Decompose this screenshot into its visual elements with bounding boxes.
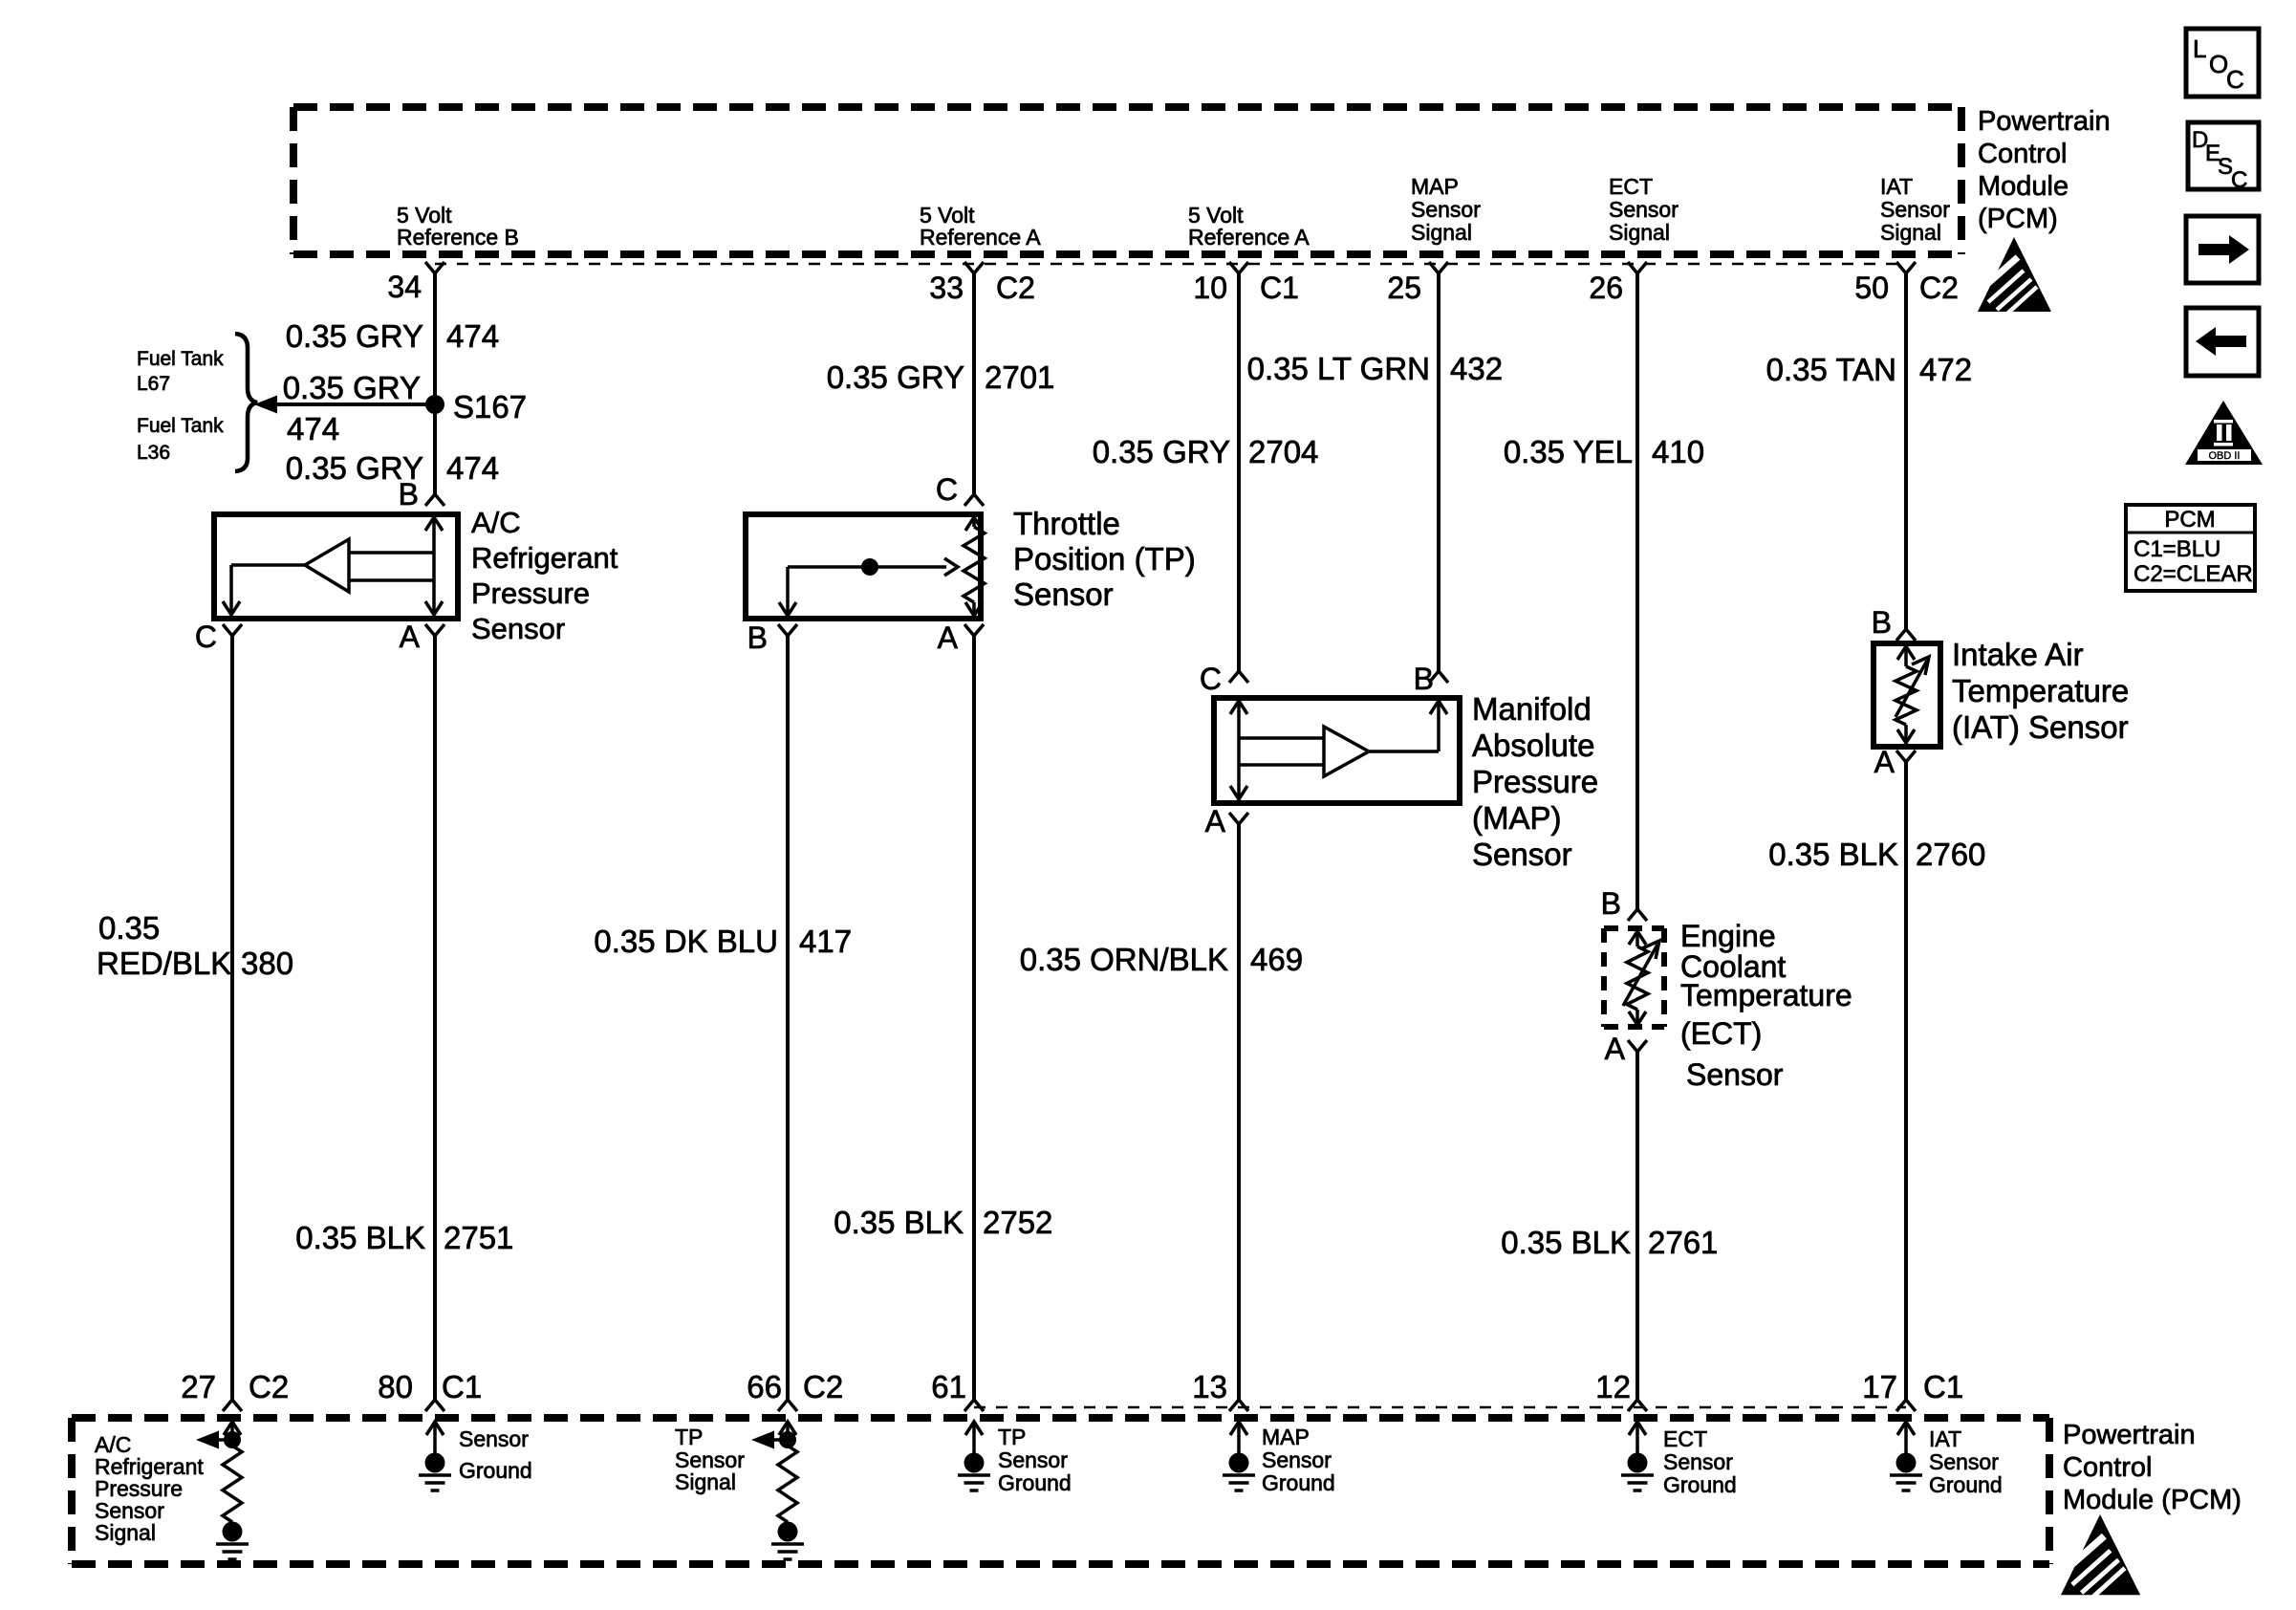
A/C refrigerant pressure sensor terminal C	[223, 624, 242, 636]
splice S167	[425, 395, 444, 414]
pin letter A (MAP)	[1205, 804, 1226, 838]
svg-text:Sensor: Sensor	[459, 1426, 529, 1451]
svg-text:34: 34	[387, 270, 422, 304]
wire label 0.35 GRY 474 (branch)	[283, 370, 421, 446]
svg-text:C: C	[195, 620, 217, 654]
svg-text:Engine: Engine	[1680, 919, 1776, 953]
svg-text:A: A	[1605, 1032, 1626, 1066]
svg-text:Signal: Signal	[95, 1520, 156, 1545]
wire 0.35 ORN/BLK 469 from MAP A to pin 13	[1237, 824, 1241, 1400]
label Fuel Tank L67	[137, 348, 224, 395]
svg-text:Pressure: Pressure	[1472, 764, 1598, 799]
svg-text:27: 27	[181, 1369, 216, 1404]
svg-text:C2: C2	[1919, 271, 1959, 305]
svg-text:C1: C1	[1923, 1369, 1963, 1404]
svg-text:B: B	[1414, 662, 1434, 696]
svg-text:Reference B: Reference B	[397, 225, 519, 250]
TP sensor potentiometer resistor	[964, 514, 985, 616]
svg-text:2704: 2704	[1248, 434, 1318, 469]
wire 0.35 LT GRN 432 from pin 25 to MAP B	[1437, 273, 1440, 671]
pin 12 label	[1595, 1369, 1631, 1404]
pin 17 label	[1862, 1369, 1897, 1404]
pin 66 terminal	[778, 1400, 797, 1411]
svg-text:Sensor: Sensor	[1411, 197, 1481, 222]
svg-text:12: 12	[1595, 1369, 1631, 1404]
pin letter C (A/C)	[195, 620, 217, 654]
legend icon LOC	[2186, 29, 2259, 97]
svg-text:Powertrain: Powertrain	[2063, 1420, 2196, 1450]
label A/C Refrigerant Pressure Sensor	[471, 506, 618, 645]
MAP sensor terminal C	[1229, 671, 1248, 683]
TP sensor wiper arm	[779, 558, 958, 616]
pin 10 terminal at PCM C1	[1229, 262, 1248, 273]
svg-text:432: 432	[1450, 351, 1503, 386]
wire 0.35 TAN 472 from pin 50 to IAT B	[1904, 273, 1908, 629]
svg-text:80: 80	[378, 1369, 413, 1404]
svg-text:C1: C1	[442, 1369, 482, 1404]
svg-text:C2: C2	[803, 1369, 843, 1404]
svg-text:Sensor: Sensor	[1013, 577, 1114, 612]
resistor R1 (PCM pull-up at pin 27)	[223, 1446, 242, 1522]
pin letter B (A/C)	[399, 477, 419, 511]
connector label C2 at pin 33	[996, 271, 1035, 305]
label IAT Sensor Ground	[1929, 1426, 2003, 1497]
PCM top connector C1/C2 boundary (thin dashed)	[435, 263, 1906, 266]
ECT sensor terminal B	[1628, 909, 1647, 921]
PCM input arrow at pin 13	[1230, 1422, 1247, 1454]
ground (PCM internal, pin 66)	[771, 1522, 804, 1560]
svg-text:A: A	[1874, 745, 1895, 779]
ground (PCM internal, pin 13)	[1223, 1453, 1255, 1491]
pin 61 terminal	[964, 1400, 984, 1411]
PCM bottom connector C1/C2 boundary (thin dashed)	[974, 1406, 1906, 1409]
svg-text:A: A	[1205, 804, 1226, 838]
svg-text:0.35 GRY: 0.35 GRY	[827, 359, 964, 395]
wire label 0.35 TAN 472	[1766, 352, 1972, 387]
wire 0.35 RED/BLK 380 from A/C C to pin 27	[230, 636, 234, 1400]
legend icon forward arrow	[2186, 216, 2259, 283]
svg-text:C: C	[2231, 167, 2247, 193]
svg-text:Signal: Signal	[1411, 220, 1472, 245]
svg-text:10: 10	[1193, 271, 1227, 305]
pin letter A (IAT)	[1874, 745, 1895, 779]
MAP sensor terminal A	[1229, 813, 1248, 824]
svg-text:469: 469	[1250, 942, 1303, 977]
svg-text:Sensor: Sensor	[998, 1447, 1068, 1472]
IAT sensor terminal A	[1896, 751, 1916, 762]
svg-text:Reference A: Reference A	[920, 225, 1041, 250]
svg-text:L: L	[2193, 34, 2206, 63]
resistor R2 (PCM pull-up at pin 66)	[778, 1446, 797, 1522]
svg-text:Fuel Tank: Fuel Tank	[137, 415, 224, 437]
svg-text:2752: 2752	[983, 1205, 1052, 1240]
pin 33 terminal at PCM C2	[964, 262, 984, 273]
svg-text:0.35 GRY: 0.35 GRY	[286, 318, 423, 354]
svg-text:B: B	[1872, 605, 1892, 640]
TP sensor terminal C	[964, 494, 984, 506]
wire label 0.35 BLK 2761	[1501, 1225, 1718, 1260]
svg-text:(IAT) Sensor: (IAT) Sensor	[1952, 709, 2129, 745]
pin letter A (A/C)	[400, 620, 421, 654]
wire label 0.35 GRY 2701	[827, 359, 1055, 395]
PCM input arrow at pin 66	[779, 1422, 796, 1440]
wire 0.35 DK BLU 417 from TP B to pin 66	[786, 636, 790, 1400]
connector label C1 at pin 80	[442, 1369, 482, 1404]
svg-text:B: B	[747, 620, 768, 655]
svg-text:Position (TP): Position (TP)	[1013, 541, 1196, 577]
svg-text:50: 50	[1854, 271, 1889, 305]
MAP sensor taps to amplifier	[1239, 738, 1324, 765]
svg-text:Intake Air: Intake Air	[1952, 637, 2084, 672]
svg-text:Ground: Ground	[998, 1470, 1072, 1495]
A/C sensor internal down arrow at A	[425, 601, 443, 615]
A/C refrigerant pressure sensor terminal B	[425, 494, 444, 506]
MAP sensor internal supply wire	[1230, 698, 1247, 801]
pin letter B (IAT)	[1872, 605, 1892, 640]
label Powertrain Control Module (PCM) bottom right	[2063, 1420, 2242, 1515]
svg-text:Sensor: Sensor	[1880, 197, 1950, 222]
svg-text:Ground: Ground	[1262, 1470, 1335, 1495]
svg-text:(ECT): (ECT)	[1680, 1016, 1762, 1051]
wire 0.35 BLK 2752 from TP A to pin 61	[972, 636, 976, 1400]
PCM input arrow at pin 80	[426, 1422, 444, 1454]
ground (PCM internal, pin 12)	[1621, 1453, 1654, 1491]
svg-text:Sensor: Sensor	[1262, 1447, 1332, 1472]
svg-text:TP: TP	[998, 1425, 1026, 1449]
svg-text:IAT: IAT	[1929, 1426, 1961, 1451]
svg-text:0.35 GRY: 0.35 GRY	[283, 370, 421, 405]
svg-text:MAP: MAP	[1262, 1425, 1310, 1449]
svg-text:Control: Control	[1978, 139, 2068, 169]
pin 34 terminal at PCM C1	[425, 262, 444, 273]
brace for fuel tank destinations	[235, 334, 257, 471]
wire 0.35 YEL 410 from pin 26 to ECT B	[1635, 273, 1639, 909]
op-amp U1 (A/C sensor amplifier)	[305, 539, 349, 592]
svg-text:A: A	[400, 620, 421, 654]
pin 26 terminal	[1628, 262, 1647, 273]
PCM input arrow at pin 17	[1897, 1422, 1915, 1454]
legend PCM connector color table	[2126, 505, 2255, 591]
A/C refrigerant pressure sensor terminal A	[425, 624, 444, 636]
svg-text:0.35 LT GRN: 0.35 LT GRN	[1247, 351, 1430, 386]
svg-text:Control: Control	[2063, 1452, 2153, 1483]
wire label 0.35 ORN/BLK 469	[1020, 942, 1303, 977]
A/C refrigerant pressure sensor box	[214, 514, 458, 619]
wire label 0.35 BLK 2752	[834, 1205, 1052, 1240]
svg-text:61: 61	[931, 1369, 966, 1404]
svg-text:66: 66	[747, 1369, 782, 1404]
svg-text:Throttle: Throttle	[1013, 506, 1120, 541]
svg-text:MAP: MAP	[1411, 174, 1459, 199]
TP signal branch arrow (to PCM logic)	[751, 1431, 788, 1449]
svg-text:33: 33	[929, 271, 964, 305]
connector label C2 at pin 50	[1919, 271, 1959, 305]
svg-text:0.35 BLK: 0.35 BLK	[295, 1220, 425, 1255]
A/C sensor internal input wire	[425, 514, 443, 615]
svg-text:474: 474	[446, 318, 499, 354]
pin 80 label	[378, 1369, 413, 1404]
svg-text:Ground: Ground	[459, 1458, 532, 1483]
svg-text:417: 417	[799, 924, 852, 959]
net label ECT Sensor Signal	[1609, 174, 1679, 245]
label Throttle Position (TP) Sensor	[1013, 506, 1196, 612]
intake air temperature sensor box	[1874, 643, 1940, 747]
svg-text:L67: L67	[137, 373, 170, 395]
svg-text:C: C	[1200, 662, 1222, 696]
svg-text:Fuel Tank: Fuel Tank	[137, 348, 224, 370]
svg-text:Sensor: Sensor	[1472, 837, 1572, 872]
wire label 0.35 GRY 474 (upper)	[286, 318, 499, 354]
connector label C2 at pin 27	[249, 1369, 289, 1404]
pin 12 terminal	[1628, 1400, 1647, 1411]
svg-text:0.35 TAN: 0.35 TAN	[1766, 352, 1896, 387]
svg-text:ECT: ECT	[1663, 1426, 1707, 1451]
svg-text:0.35 ORN/BLK: 0.35 ORN/BLK	[1020, 942, 1228, 977]
wire label 0.35 RED/BLK 380	[97, 910, 293, 981]
label Fuel Tank L36	[137, 415, 224, 464]
svg-text:17: 17	[1862, 1369, 1897, 1404]
PCM module box (top), dashed outline	[293, 107, 1961, 254]
pin letter B (TP)	[747, 620, 768, 655]
svg-text:Sensor: Sensor	[1929, 1449, 1999, 1474]
svg-text:(PCM): (PCM)	[1978, 204, 2058, 234]
svg-text:IAT: IAT	[1880, 174, 1913, 199]
label S167	[453, 389, 527, 424]
connector label C1 at pin 10	[1260, 271, 1299, 305]
svg-text:RED/BLK: RED/BLK	[97, 946, 231, 981]
pin 13 label	[1192, 1369, 1227, 1404]
svg-text:C: C	[2226, 65, 2244, 94]
net label 5 Volt Reference B	[397, 203, 519, 250]
A/C signal branch arrow (to PCM logic)	[196, 1431, 232, 1449]
label Engine Coolant Temperature (ECT) Sensor	[1680, 919, 1852, 1092]
op-amp U2 (MAP sensor amplifier)	[1324, 727, 1369, 776]
PCM input arrow at pin 12	[1629, 1422, 1646, 1454]
svg-text:S167: S167	[453, 389, 527, 424]
ground (PCM internal, pin 80)	[419, 1453, 451, 1491]
svg-text:2761: 2761	[1648, 1225, 1718, 1260]
label Manifold Absolute Pressure (MAP) Sensor	[1472, 691, 1598, 872]
manifold absolute pressure sensor box	[1214, 698, 1460, 803]
svg-text:25: 25	[1387, 271, 1421, 305]
svg-text:(MAP): (MAP)	[1472, 800, 1562, 836]
pin 34 label	[387, 270, 422, 304]
svg-text:Refrigerant: Refrigerant	[471, 541, 618, 575]
svg-text:13: 13	[1192, 1369, 1227, 1404]
svg-text:A/C: A/C	[471, 506, 521, 539]
wire label 0.35 YEL 410	[1504, 434, 1704, 469]
A/C sensor output wire to pin C	[223, 565, 305, 615]
wire branch 0.35 GRY 474 to fuel tank senders	[254, 396, 435, 414]
svg-text:Signal: Signal	[675, 1469, 736, 1494]
pin letter C (TP)	[936, 472, 958, 507]
svg-text:0.35: 0.35	[98, 910, 160, 946]
svg-text:L36: L36	[137, 442, 170, 464]
connector label C2 at pin 66	[803, 1369, 843, 1404]
label Sensor Ground (pin 80)	[459, 1426, 532, 1483]
MAP sensor terminal B	[1429, 671, 1448, 683]
node junction at pin 27	[224, 1431, 241, 1448]
pin 26 label	[1589, 271, 1623, 305]
pin letter A (TP)	[938, 620, 959, 655]
engine coolant temperature sensor dashed box	[1604, 928, 1664, 1027]
pin letter C (MAP)	[1200, 662, 1222, 696]
pin 61 label	[931, 1369, 966, 1404]
wire label 0.35 BLK 2760	[1768, 837, 1985, 872]
IAT sensor terminal B	[1896, 629, 1916, 641]
ground (PCM internal, pin 17)	[1890, 1453, 1922, 1491]
svg-text:Module (PCM): Module (PCM)	[2063, 1485, 2242, 1515]
ECT sensor terminal A	[1628, 1040, 1647, 1052]
svg-text:C2: C2	[249, 1369, 289, 1404]
ESD sensitivity symbol (top)	[1978, 237, 2051, 314]
svg-text:Signal: Signal	[1609, 220, 1670, 245]
label TP Sensor Signal	[675, 1425, 745, 1494]
wire 0.35 BLK 2751 from A/C A to pin 80	[433, 636, 437, 1400]
wire label 0.35 LT GRN 432	[1247, 351, 1503, 386]
svg-text:C: C	[936, 472, 958, 507]
net label MAP Sensor Signal	[1411, 174, 1481, 245]
pin 27 terminal	[223, 1400, 242, 1411]
label Powertrain Control Module (PCM) top right	[1978, 106, 2111, 234]
svg-text:PCM: PCM	[2164, 507, 2215, 533]
connector label C1 at pin 17	[1923, 1369, 1963, 1404]
svg-text:Manifold: Manifold	[1472, 691, 1592, 727]
pin 10 label	[1193, 271, 1227, 305]
svg-text:Signal: Signal	[1880, 220, 1941, 245]
svg-text:Temperature: Temperature	[1680, 978, 1852, 1012]
wire label 0.35 DK BLU 417	[594, 924, 852, 959]
wire label 0.35 GRY 2704	[1093, 434, 1319, 469]
svg-text:2701: 2701	[985, 359, 1054, 395]
pin 13 terminal	[1229, 1400, 1248, 1411]
pin letter B (ECT)	[1601, 886, 1621, 921]
svg-text:474: 474	[446, 450, 499, 486]
PCM module box (bottom), dashed outline	[72, 1418, 2049, 1564]
legend icon DESC	[2188, 122, 2259, 193]
svg-text:C1=BLU: C1=BLU	[2134, 536, 2220, 562]
svg-text:A: A	[938, 620, 959, 655]
A/C sensor internal taps to amplifier	[349, 553, 434, 580]
svg-text:Sensor: Sensor	[1609, 197, 1679, 222]
wire 0.35 BLK 2761 from ECT A to pin 12	[1635, 1052, 1639, 1400]
svg-text:OBD II: OBD II	[2208, 450, 2240, 462]
thermistor RT1 (ECT)	[1623, 928, 1659, 1025]
label MAP Sensor Ground	[1262, 1425, 1335, 1495]
svg-text:0.35 BLK: 0.35 BLK	[834, 1205, 964, 1240]
pin 33 label	[929, 271, 964, 305]
svg-text:Module: Module	[1978, 171, 2069, 202]
pin 80 terminal	[425, 1400, 444, 1411]
label Intake Air Temperature (IAT) Sensor	[1952, 637, 2129, 745]
wire label 0.35 BLK 2751	[295, 1220, 513, 1255]
svg-text:472: 472	[1919, 352, 1972, 387]
svg-text:Sensor: Sensor	[1686, 1057, 1784, 1092]
svg-text:Reference A: Reference A	[1188, 225, 1310, 250]
svg-text:C2: C2	[996, 271, 1035, 305]
net label 5 Volt Reference A (MAP)	[1188, 203, 1310, 250]
pin 50 label	[1854, 271, 1889, 305]
svg-text:Absolute: Absolute	[1472, 728, 1594, 763]
pin 17 terminal	[1896, 1400, 1916, 1411]
TP sensor terminal A	[964, 624, 984, 636]
svg-text:ECT: ECT	[1609, 174, 1653, 199]
pin 25 terminal	[1429, 262, 1448, 273]
throttle position sensor box	[746, 514, 981, 619]
svg-text:Pressure: Pressure	[471, 577, 590, 610]
wire 0.35 GRY 474 from pin 34 to A/C B	[433, 273, 437, 495]
svg-text:Sensor: Sensor	[471, 612, 565, 645]
svg-text:Temperature: Temperature	[1952, 673, 2129, 708]
legend icon back arrow	[2186, 308, 2259, 376]
svg-text:0.35 GRY: 0.35 GRY	[1093, 434, 1230, 469]
svg-text:TP: TP	[675, 1425, 703, 1449]
TP sensor terminal B	[778, 624, 797, 636]
svg-text:26: 26	[1589, 271, 1623, 305]
pin 25 label	[1387, 271, 1421, 305]
net label IAT Sensor Signal	[1880, 174, 1950, 245]
node junction at pin 66	[779, 1431, 796, 1448]
wire 0.35 BLK 2760 from IAT A to pin 17	[1904, 762, 1908, 1400]
svg-text:410: 410	[1652, 434, 1704, 469]
svg-text:0.35 BLK: 0.35 BLK	[1768, 837, 1898, 872]
label A/C Refrigerant Pressure Sensor Signal	[95, 1432, 204, 1545]
MAP sensor output wire to pin B	[1369, 701, 1447, 751]
svg-text:0.35 BLK: 0.35 BLK	[1501, 1225, 1631, 1260]
PCM input arrow at pin 27	[224, 1422, 241, 1440]
ground (PCM internal, pin 61)	[958, 1453, 990, 1491]
pin 50 terminal	[1896, 262, 1916, 273]
svg-text:B: B	[399, 477, 419, 511]
wire 0.35 GRY 2704 from pin 10 to MAP C	[1237, 273, 1241, 671]
svg-text:Powertrain: Powertrain	[1978, 106, 2111, 137]
pin letter A (ECT)	[1605, 1032, 1626, 1066]
label ECT Sensor Ground	[1663, 1426, 1737, 1497]
svg-text:B: B	[1601, 886, 1621, 921]
svg-text:Sensor: Sensor	[1663, 1449, 1733, 1474]
svg-text:2760: 2760	[1916, 837, 1985, 872]
net label 5 Volt Reference A (TP)	[920, 203, 1041, 250]
svg-text:380: 380	[241, 946, 293, 981]
wire label 0.35 GRY 474 (lower)	[286, 450, 499, 486]
ground (PCM internal, pin 27)	[216, 1522, 249, 1560]
label TP Sensor Ground	[998, 1425, 1072, 1495]
pin 27 label	[181, 1369, 216, 1404]
svg-text:C1: C1	[1260, 271, 1299, 305]
svg-text:Ground: Ground	[1929, 1472, 2003, 1497]
svg-text:2751: 2751	[444, 1220, 513, 1255]
svg-text:474: 474	[287, 411, 339, 446]
pin 66 label	[747, 1369, 782, 1404]
svg-text:0.35 YEL: 0.35 YEL	[1504, 434, 1633, 469]
svg-text:Ground: Ground	[1663, 1472, 1737, 1497]
svg-text:C2=CLEAR: C2=CLEAR	[2134, 561, 2253, 587]
PCM input arrow at pin 61	[965, 1422, 983, 1454]
thermistor RT2 (IAT)	[1895, 643, 1929, 743]
wire 0.35 GRY 2701 from pin 33 to TP C	[972, 273, 976, 494]
legend icon OBD II triangle	[2185, 401, 2263, 465]
ESD sensitivity symbol (bottom)	[2061, 1514, 2140, 1597]
pin letter B (MAP)	[1414, 662, 1434, 696]
svg-text:0.35 DK BLU: 0.35 DK BLU	[594, 924, 778, 959]
